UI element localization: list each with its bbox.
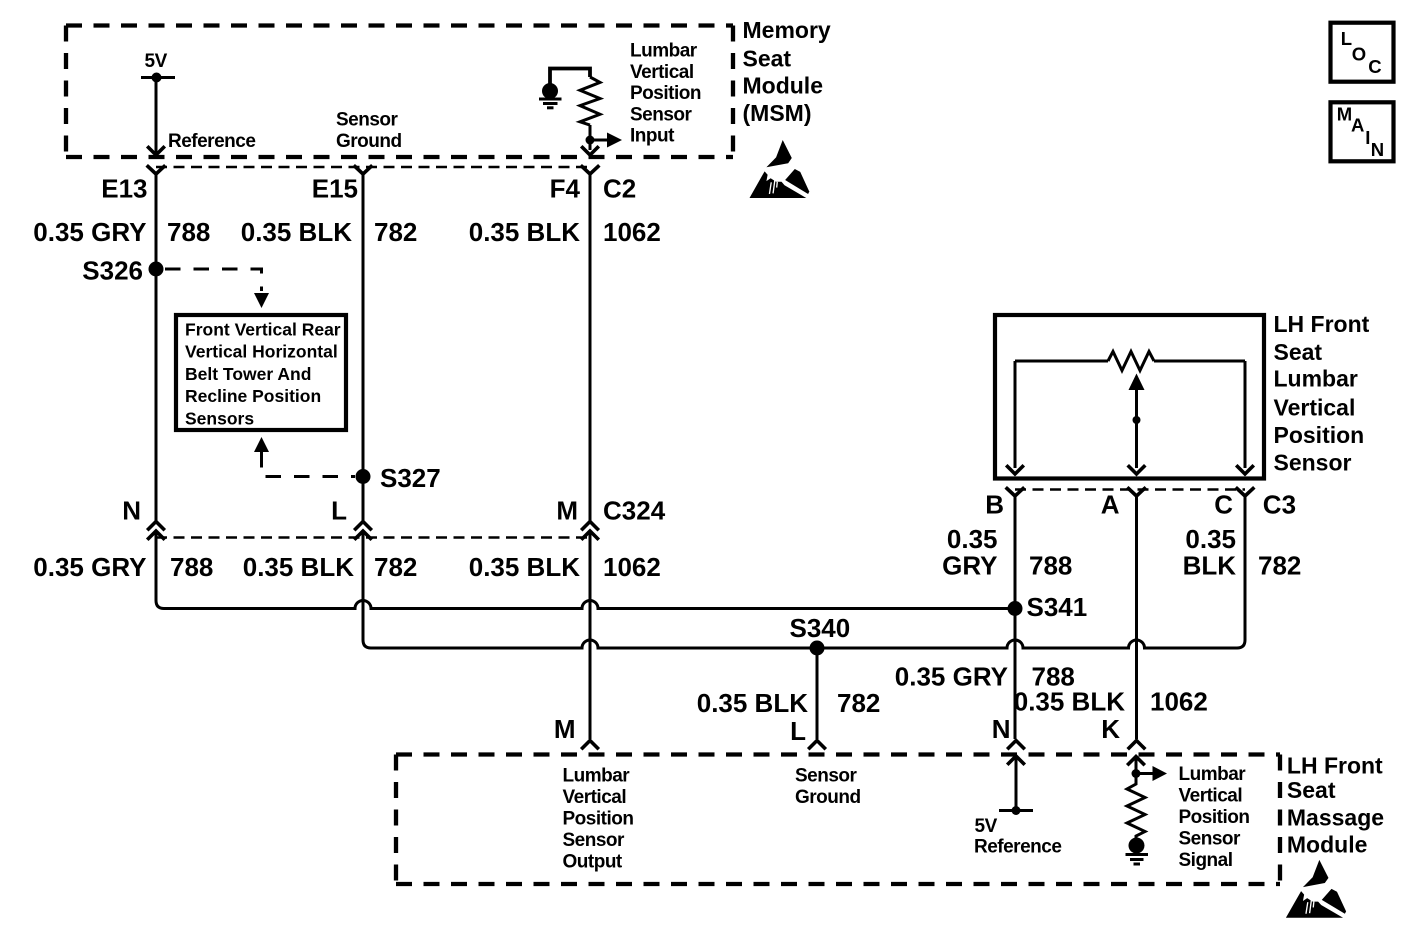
svg-text:Memory: Memory <box>743 17 831 43</box>
dashed link S327 to sensors box <box>254 437 355 477</box>
ground G symbol (massage) <box>1126 838 1149 865</box>
connector pin M chevrons <box>583 522 598 539</box>
svg-text:1062: 1062 <box>1150 687 1208 717</box>
connector pin E15 chevron <box>355 167 371 175</box>
svg-text:(MSM): (MSM) <box>743 100 812 126</box>
svg-text:LH Front: LH Front <box>1274 311 1370 337</box>
connector pin K chevron (massage) <box>1129 741 1144 749</box>
MAIN reference box <box>1331 102 1394 161</box>
svg-text:0.35: 0.35 <box>947 524 998 554</box>
svg-text:C324: C324 <box>603 496 666 526</box>
svg-text:Vertical: Vertical <box>1274 395 1356 421</box>
svg-text:1062: 1062 <box>603 552 661 582</box>
connector pin F4 chevron <box>582 167 598 175</box>
svg-text:Front Vertical Rear: Front Vertical Rear <box>185 320 341 340</box>
svg-text:0.35 GRY: 0.35 GRY <box>33 552 146 582</box>
svg-text:Sensor: Sensor <box>630 104 693 125</box>
svg-text:Sensor: Sensor <box>795 766 858 787</box>
wire N pin to 5V bar <box>1015 757 1018 811</box>
wire label 0.35 GRY 788 (row 2) <box>33 552 213 582</box>
potentiometer right leg wire <box>1244 361 1247 468</box>
label LH Front Seat Massage Module <box>1287 752 1384 857</box>
wire M down to massage module <box>589 531 592 739</box>
svg-text:Signal: Signal <box>1179 850 1233 871</box>
label Lumbar Vertical Position Sensor Signal <box>1179 764 1250 871</box>
svg-text:Seat: Seat <box>743 46 792 72</box>
splice S327 <box>356 463 441 493</box>
resistor (massage signal) <box>1127 778 1145 838</box>
svg-text:N: N <box>122 496 141 526</box>
svg-text:E15: E15 <box>312 173 358 203</box>
wire label 0.35 BLK 782 (pin C) <box>1183 524 1302 581</box>
svg-text:Position: Position <box>1274 422 1365 448</box>
svg-text:Position: Position <box>630 83 701 104</box>
connector pin E13 chevron <box>148 167 164 175</box>
arrow down pin B inside sensor <box>1008 467 1023 475</box>
splice S326 <box>82 256 163 286</box>
arrow down pin A inside sensor <box>1129 467 1144 475</box>
svg-text:Sensor: Sensor <box>563 830 626 851</box>
arrow down at MSM edge (Reference) <box>149 148 164 156</box>
arrow right Input <box>590 133 622 148</box>
svg-text:5V: 5V <box>145 51 168 72</box>
svg-text:Vertical: Vertical <box>563 787 627 808</box>
wire label 0.35 BLK 782 (sensor ground run) <box>697 688 881 718</box>
connector C3 dashed line <box>1015 488 1245 491</box>
svg-text:Ground: Ground <box>795 787 861 808</box>
svg-text:S340: S340 <box>790 613 851 643</box>
wire resistor to junction <box>589 125 592 150</box>
svg-text:K: K <box>1101 714 1120 744</box>
svg-text:Sensor: Sensor <box>336 110 399 131</box>
svg-text:788: 788 <box>170 552 213 582</box>
module box Memory Seat Module (dashed border) <box>66 26 733 158</box>
wire label 0.35 BLK 782 (row 2) <box>243 552 418 582</box>
label Lumbar Vertical Position Sensor Output <box>563 766 634 873</box>
connector pin B chevron <box>1007 489 1023 497</box>
svg-text:Input: Input <box>630 126 675 147</box>
svg-text:Output: Output <box>563 852 623 873</box>
svg-text:Reference: Reference <box>168 131 255 152</box>
svg-text:782: 782 <box>374 217 417 247</box>
svg-text:O: O <box>1352 44 1366 65</box>
svg-text:Lumbar: Lumbar <box>1274 366 1358 392</box>
svg-text:S341: S341 <box>1027 592 1088 622</box>
5V reference source symbol <box>141 51 175 83</box>
wire label 0.35 GRY 788 (pin B) <box>942 524 1072 581</box>
component box LH Front Seat Lumbar Vertical Position Sensor <box>995 315 1264 479</box>
5V reference source (massage) <box>974 806 1061 858</box>
box Front Vertical Rear Vertical Horizontal Belt Tower And Recline Position Sensors <box>176 315 346 430</box>
connector pin M chevron (massage) <box>583 741 598 749</box>
svg-text:L: L <box>331 496 347 526</box>
svg-text:Lumbar: Lumbar <box>563 766 631 787</box>
LOC reference box <box>1331 23 1394 82</box>
wire S340 to L pin (massage) <box>816 648 819 739</box>
svg-text:Vertical: Vertical <box>630 62 694 83</box>
arrow up at massage edge (K pin) <box>1129 757 1144 765</box>
arrow right signal <box>1136 766 1167 781</box>
wire E13 to C324 (GRY 788) <box>155 174 158 522</box>
potentiometer left leg wire <box>1014 361 1017 468</box>
svg-text:1062: 1062 <box>603 217 661 247</box>
wire N to S341 (horizontal run with hops) <box>156 531 1015 609</box>
svg-text:N: N <box>1371 139 1384 160</box>
connector C2 dashed line <box>156 166 590 169</box>
ground G symbol inside MSM <box>539 83 562 108</box>
svg-text:5V: 5V <box>975 816 998 837</box>
arrow down at MSM edge (F4) <box>583 148 598 156</box>
connector pin L chevron (massage) <box>810 741 825 749</box>
svg-text:BLK: BLK <box>1183 551 1237 581</box>
wire 5V reference inside MSM <box>155 78 158 154</box>
potentiometer resistor (sensor) <box>1015 352 1245 371</box>
connector pin L chevrons <box>356 522 371 539</box>
svg-text:782: 782 <box>1258 551 1301 581</box>
svg-text:C3: C3 <box>1263 490 1296 520</box>
svg-text:Lumbar: Lumbar <box>1179 764 1247 785</box>
dashed link S326 to sensors box <box>165 269 269 308</box>
svg-text:C: C <box>1368 56 1381 77</box>
svg-text:M: M <box>1337 103 1352 124</box>
connector pin A chevron <box>1129 489 1145 497</box>
svg-text:LH Front: LH Front <box>1287 752 1383 778</box>
svg-text:0.35 GRY: 0.35 GRY <box>895 662 1008 692</box>
connector pin N chevron (massage) <box>1009 741 1024 749</box>
wire B to N pin (massage) <box>1014 496 1017 739</box>
wire label 0.35 GRY 788 (5V reference run) <box>895 662 1075 692</box>
module box LH Front Seat Massage Module (dashed border) <box>396 755 1280 885</box>
svg-text:M: M <box>556 496 578 526</box>
svg-text:Reference: Reference <box>974 837 1061 858</box>
arrow down pin C inside sensor <box>1238 467 1253 475</box>
svg-text:782: 782 <box>374 552 417 582</box>
resistor in MSM <box>580 77 600 125</box>
label Lumbar Vertical Position Sensor Input <box>630 41 701 147</box>
label LH Front Seat Lumbar Vertical Position Sensor <box>1274 311 1370 476</box>
svg-text:C: C <box>1214 490 1233 520</box>
arrow up at massage edge (N pin) <box>1009 756 1024 764</box>
wire K pin to junction <box>1135 758 1138 781</box>
svg-text:0.35 BLK: 0.35 BLK <box>469 217 580 247</box>
svg-text:Sensors: Sensors <box>185 408 254 428</box>
svg-text:Sensor: Sensor <box>1179 828 1242 849</box>
svg-text:0.35 BLK: 0.35 BLK <box>243 552 354 582</box>
wire label 0.35 BLK 1062 (signal run) <box>1014 687 1208 717</box>
svg-text:782: 782 <box>837 688 880 718</box>
svg-text:L: L <box>1341 28 1352 49</box>
svg-text:S327: S327 <box>380 463 441 493</box>
wire A to K pin (massage) <box>1135 496 1138 739</box>
wire label 0.35 BLK 1062 (row 2) <box>469 552 661 582</box>
svg-text:Position: Position <box>1179 807 1250 828</box>
svg-text:A: A <box>1351 114 1364 135</box>
svg-text:0.35 GRY: 0.35 GRY <box>33 217 146 247</box>
ESD warning symbol (MSM) <box>750 140 810 198</box>
svg-text:Vertical: Vertical <box>1179 785 1243 806</box>
wire label 0.35 GRY 788 (row 1) <box>33 217 210 247</box>
wire label 0.35 BLK 1062 (row 1) <box>469 217 661 247</box>
svg-text:S326: S326 <box>82 256 143 286</box>
svg-text:Position: Position <box>563 809 634 830</box>
svg-text:788: 788 <box>167 217 210 247</box>
wire label 0.35 BLK 782 (row 1) <box>241 217 418 247</box>
svg-text:A: A <box>1101 490 1120 520</box>
svg-text:M: M <box>554 714 576 744</box>
svg-text:L: L <box>790 716 806 746</box>
svg-text:I: I <box>1365 127 1370 148</box>
svg-text:788: 788 <box>1029 551 1072 581</box>
svg-text:Lumbar: Lumbar <box>630 41 698 62</box>
svg-text:N: N <box>992 714 1011 744</box>
svg-text:Seat: Seat <box>1287 777 1336 803</box>
label Sensor Ground <box>336 110 402 153</box>
svg-text:Module: Module <box>743 73 824 99</box>
connector C324 dashed line <box>156 536 590 539</box>
junction dot (signal tap) <box>1132 769 1141 778</box>
svg-text:Seat: Seat <box>1274 339 1323 365</box>
label Memory Seat Module (MSM) <box>743 17 831 126</box>
svg-text:Module: Module <box>1287 832 1368 858</box>
svg-text:E13: E13 <box>101 173 147 203</box>
junction dot (sensor input tap) <box>586 136 595 145</box>
svg-text:0.35: 0.35 <box>1185 524 1236 554</box>
svg-text:Belt Tower And: Belt Tower And <box>185 364 311 384</box>
svg-text:C2: C2 <box>603 173 636 203</box>
svg-text:0.35 BLK: 0.35 BLK <box>697 688 808 718</box>
wire E15 to C324 (BLK 782) <box>362 174 365 522</box>
potentiometer wiper arrow <box>1129 374 1145 469</box>
splice S341 <box>1008 592 1088 622</box>
svg-text:Vertical Horizontal: Vertical Horizontal <box>185 342 338 362</box>
wire F4 to C324 (BLK 1062) <box>589 174 592 522</box>
svg-text:Sensor: Sensor <box>1274 449 1352 475</box>
connector pin C chevron <box>1237 489 1253 497</box>
svg-text:Massage: Massage <box>1287 804 1384 830</box>
label Sensor Ground (massage) <box>795 766 861 809</box>
wire ground to resistor top <box>550 69 590 85</box>
svg-text:0.35 BLK: 0.35 BLK <box>469 552 580 582</box>
svg-text:0.35 BLK: 0.35 BLK <box>1014 687 1125 717</box>
svg-text:Recline Position: Recline Position <box>185 386 321 406</box>
svg-text:GRY: GRY <box>942 551 997 581</box>
wire L to C3 pin C (horizontal run with hops) <box>363 495 1245 648</box>
ESD warning symbol (massage) <box>1286 860 1346 918</box>
splice S340 <box>790 613 851 656</box>
svg-text:F4: F4 <box>550 173 581 203</box>
svg-text:Ground: Ground <box>336 131 402 152</box>
connector pin N chevrons <box>149 522 164 539</box>
svg-text:B: B <box>985 490 1004 520</box>
svg-text:0.35 BLK: 0.35 BLK <box>241 217 352 247</box>
